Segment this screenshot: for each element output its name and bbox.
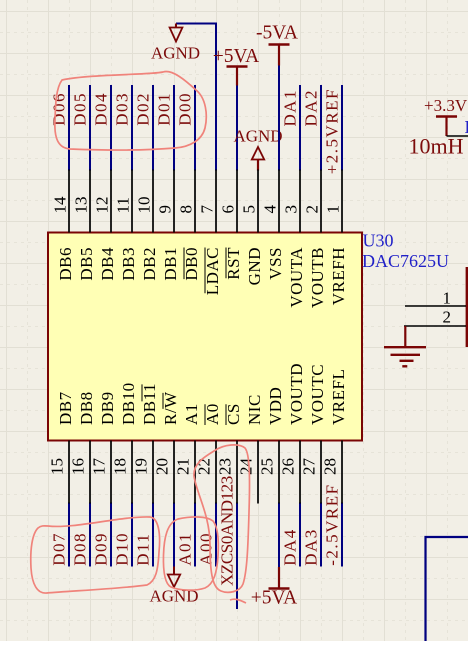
svg-text:26: 26 — [279, 458, 298, 475]
power +5VA (bottom) — [251, 567, 297, 609]
svg-text:23: 23 — [216, 458, 235, 475]
clipped IC left edge — [466, 267, 468, 347]
svg-text:LDAC: LDAC — [203, 247, 222, 295]
svg-text:DB10: DB10 — [119, 382, 138, 425]
wire net D03 — [131, 85, 133, 171]
svg-text:AGND: AGND — [233, 127, 282, 146]
wire net D10 — [131, 503, 133, 567]
svg-text:+5VA: +5VA — [213, 46, 259, 67]
svg-text:+2.5VREF: +2.5VREF — [323, 88, 342, 174]
pin 15 (DB7) — [48, 391, 76, 503]
svg-text:16: 16 — [69, 458, 88, 475]
svg-text:18: 18 — [111, 458, 130, 475]
svg-text:AGND: AGND — [151, 44, 200, 63]
ground AGND (bottom) — [149, 567, 198, 606]
pin 22 (A0) — [195, 403, 223, 503]
annotation circle (D06-D00) — [55, 71, 206, 150]
pin 28 (VREFL) — [321, 369, 349, 504]
svg-text:DB4: DB4 — [98, 247, 117, 281]
svg-text:VOUTD: VOUTD — [287, 363, 306, 425]
svg-text:DAC7625U: DAC7625U — [362, 251, 449, 271]
annotation circle (XZCS0AND123) — [194, 445, 250, 592]
wire net DA4 — [299, 503, 301, 567]
pin 17 (DB9) — [90, 391, 118, 503]
svg-text:DB1: DB1 — [161, 247, 180, 281]
wire RST to +5VA — [236, 86, 238, 171]
svg-text:VOUTB: VOUTB — [308, 247, 327, 308]
pin 2 (VOUTB) — [303, 170, 328, 309]
power +5VA (top) — [213, 46, 259, 86]
pin 1 (VREFH) — [324, 170, 349, 306]
svg-text:10: 10 — [135, 197, 154, 214]
svg-text:-2.5VREF: -2.5VREF — [323, 483, 342, 565]
svg-text:11: 11 — [114, 197, 133, 213]
svg-text:DB3: DB3 — [119, 247, 138, 281]
wire R/W to AGND — [173, 503, 175, 567]
wire +3.3V to inductor — [447, 135, 468, 137]
svg-text:13: 13 — [72, 197, 91, 214]
wire net D07 — [68, 503, 70, 567]
pin 3 (VOUTA) — [282, 170, 307, 308]
svg-text:XZCS0AND123: XZCS0AND123 — [218, 476, 237, 586]
svg-text:14: 14 — [51, 196, 70, 214]
pin 5 (GND) — [240, 170, 265, 286]
svg-text:5: 5 — [240, 205, 259, 214]
pin 16 (DB8) — [69, 391, 97, 503]
svg-text:17: 17 — [90, 458, 109, 476]
svg-text:D08: D08 — [71, 532, 90, 566]
wire net XZCS0AND123 — [236, 503, 238, 610]
svg-text:D03: D03 — [113, 92, 132, 126]
svg-text:DB6: DB6 — [56, 247, 75, 281]
pin 27 (VOUTC) — [300, 364, 328, 504]
svg-text:VREFH: VREFH — [329, 247, 348, 305]
svg-text:A1: A1 — [182, 403, 201, 425]
svg-text:DA4: DA4 — [281, 528, 300, 566]
svg-text:D09: D09 — [92, 532, 111, 566]
svg-text:4: 4 — [261, 205, 280, 214]
svg-text:D04: D04 — [92, 92, 111, 126]
svg-text:DB2: DB2 — [140, 247, 159, 281]
svg-text:L3: L3 — [465, 117, 468, 137]
svg-text:3: 3 — [282, 205, 301, 214]
svg-text:24: 24 — [237, 458, 256, 476]
pin 23 (CS) — [216, 403, 244, 503]
earth ground — [384, 326, 426, 366]
svg-text:U30: U30 — [363, 231, 394, 251]
wire net DA1 — [299, 85, 301, 171]
svg-text:-5VA: -5VA — [256, 23, 298, 44]
power -5VA — [256, 23, 298, 66]
svg-text:RST: RST — [224, 247, 243, 280]
svg-text:VSS: VSS — [266, 247, 285, 280]
wire VDD to +5VA — [278, 503, 280, 568]
pin 1 (clipped IC) — [405, 289, 466, 308]
wire VSS to -5VA — [278, 66, 280, 171]
pin 25 (VDD) — [258, 387, 286, 504]
svg-text:2: 2 — [443, 308, 452, 327]
svg-text:28: 28 — [321, 458, 340, 475]
wire (bottom right corner net) — [426, 537, 468, 641]
wire net D01 — [173, 85, 175, 171]
svg-text:D10: D10 — [113, 532, 132, 566]
wire net DA2 — [320, 85, 322, 171]
svg-text:25: 25 — [258, 458, 277, 475]
pin 19 (DB11) — [132, 383, 160, 504]
svg-text:6: 6 — [219, 205, 238, 214]
pin 26 (VOUTD) — [279, 363, 307, 504]
svg-text:VDD: VDD — [266, 387, 285, 425]
svg-text:10mH: 10mH — [409, 134, 464, 159]
wire net D09 — [110, 503, 112, 567]
wire net +2.5VREF — [341, 85, 343, 171]
svg-text:GND: GND — [245, 247, 264, 285]
svg-text:VOUTC: VOUTC — [308, 364, 327, 425]
pin 6 (RST) — [219, 170, 244, 280]
svg-text:2: 2 — [303, 205, 322, 214]
pin 18 (DB10) — [111, 382, 139, 503]
svg-text:DA2: DA2 — [302, 89, 321, 127]
svg-text:DA3: DA3 — [302, 528, 321, 566]
pin 14 (DB6) — [51, 170, 76, 281]
svg-text:21: 21 — [174, 458, 193, 475]
ground AGND (above pin 5) — [233, 127, 282, 171]
wire net D08 — [89, 503, 91, 567]
svg-text:20: 20 — [153, 458, 172, 475]
svg-text:DB8: DB8 — [77, 391, 96, 425]
svg-text:A00: A00 — [197, 532, 216, 566]
pin 2 (clipped IC) — [404, 308, 466, 327]
wire net -2.5VREF — [341, 503, 343, 567]
svg-text:7: 7 — [198, 205, 217, 214]
annotation circle (A01 A00) — [163, 517, 218, 590]
svg-text:19: 19 — [132, 458, 151, 475]
pin 20 (R/W) — [153, 391, 181, 504]
annotation circle (D07-D11) — [31, 517, 160, 593]
svg-text:DB11: DB11 — [140, 383, 159, 425]
wire net A00 — [215, 503, 217, 567]
svg-text:15: 15 — [48, 458, 67, 475]
svg-text:DB9: DB9 — [98, 391, 117, 425]
svg-text:D05: D05 — [71, 92, 90, 126]
svg-text:DB7: DB7 — [56, 391, 75, 425]
svg-text:+5VA: +5VA — [251, 588, 297, 609]
IC U30 DAC7625U body — [48, 233, 362, 441]
wire net D11 — [152, 503, 154, 567]
pin 9 (DB1) — [156, 170, 181, 281]
wire net D00 — [194, 85, 196, 171]
svg-text:DB0: DB0 — [182, 247, 201, 281]
svg-text:1: 1 — [443, 289, 452, 308]
wire net D04 — [110, 85, 112, 171]
svg-text:NIC: NIC — [245, 394, 264, 425]
ground AGND (top left) — [151, 24, 200, 63]
svg-text:VREFL: VREFL — [329, 369, 348, 425]
svg-text:D07: D07 — [50, 532, 69, 566]
svg-text:D00: D00 — [176, 92, 195, 126]
svg-text:R/W: R/W — [161, 391, 180, 425]
svg-text:9: 9 — [156, 205, 175, 214]
power +3.3V — [424, 96, 468, 136]
wire net D05 — [89, 85, 91, 171]
pin 24 (NIC) — [237, 394, 265, 503]
wire net A01 — [194, 503, 196, 567]
pin 11 (DB3) — [114, 170, 139, 281]
svg-text:A0: A0 — [203, 403, 222, 425]
svg-text:12: 12 — [93, 197, 112, 214]
svg-text:D01: D01 — [155, 92, 174, 126]
pin 7 (LDAC) — [198, 170, 223, 296]
wire LDAC to AGND — [176, 24, 216, 171]
pin 10 (DB2) — [135, 170, 160, 281]
wire net DA3 — [320, 503, 322, 567]
svg-text:1: 1 — [324, 205, 343, 214]
svg-text:VOUTA: VOUTA — [287, 247, 306, 308]
svg-text:+3.3V: +3.3V — [424, 96, 468, 115]
svg-text:D06: D06 — [50, 92, 69, 126]
pin 8 (DB0) — [177, 170, 202, 281]
svg-text:27: 27 — [300, 458, 319, 476]
pin 13 (DB5) — [72, 170, 97, 281]
svg-text:CS: CS — [224, 403, 243, 425]
svg-text:8: 8 — [177, 205, 196, 214]
svg-text:DA1: DA1 — [281, 89, 300, 127]
pin 4 (VSS) — [261, 170, 286, 280]
pin 12 (DB4) — [93, 170, 118, 281]
svg-text:DB5: DB5 — [77, 247, 96, 281]
wire net D06 — [68, 85, 70, 171]
svg-text:D11: D11 — [134, 533, 153, 566]
svg-text:A01: A01 — [176, 532, 195, 566]
wire net D02 — [152, 85, 154, 171]
svg-text:22: 22 — [195, 458, 214, 475]
svg-text:D02: D02 — [134, 92, 153, 126]
pin 21 (A1) — [174, 403, 202, 503]
annotation tick — [230, 599, 246, 603]
